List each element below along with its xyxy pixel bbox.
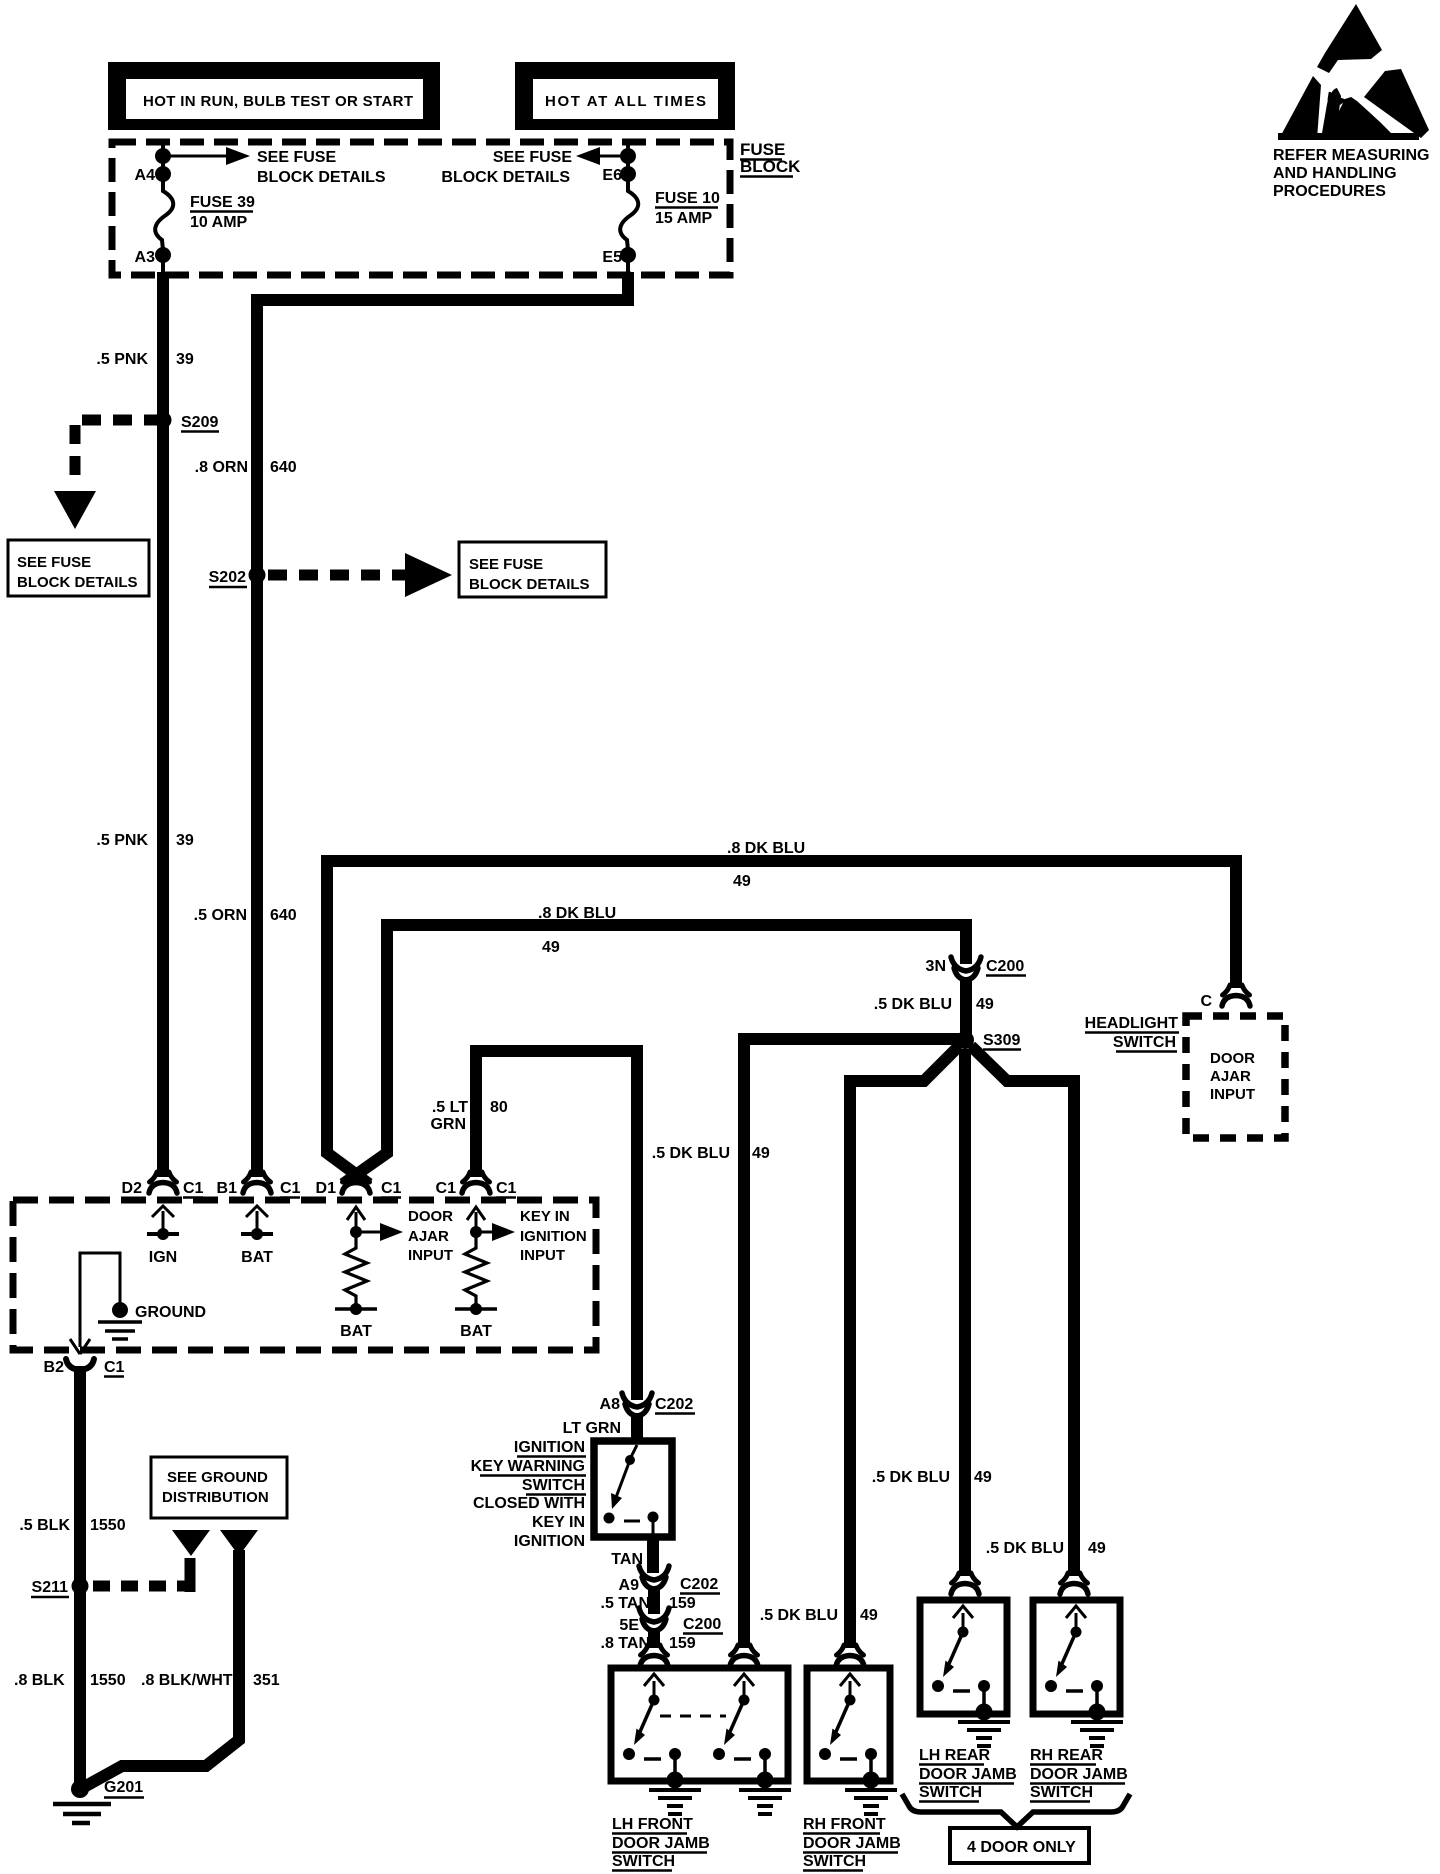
svg-text:A9: A9 <box>619 1577 640 1594</box>
svg-text:BLOCK DETAILS: BLOCK DETAILS <box>441 169 570 186</box>
wire .5 LT GRN 80 from cluster C1 to A8 C202 <box>476 1051 637 1400</box>
cluster internal ground <box>80 1253 206 1347</box>
cluster IGN pin <box>147 1206 179 1266</box>
svg-text:IGN: IGN <box>149 1249 177 1266</box>
svg-text:49: 49 <box>542 939 560 956</box>
svg-text:E5: E5 <box>602 249 622 266</box>
svg-text:.5 BLK: .5 BLK <box>19 1517 70 1534</box>
label .8 BLK 1550 / .8 BLK/WHT 351 <box>14 1672 280 1689</box>
node E6 <box>602 166 636 184</box>
svg-text:A3: A3 <box>135 249 156 266</box>
connector C1 (key-in ignition) <box>436 1172 517 1198</box>
svg-text:S202: S202 <box>209 569 246 586</box>
wire .8 TAN 159 <box>648 1628 660 1648</box>
see ground distribution box <box>151 1457 287 1518</box>
svg-text:KEY WARNING: KEY WARNING <box>471 1458 585 1475</box>
RH front door jamb switch box <box>807 1668 897 1814</box>
connector into RH rear switch <box>1060 1573 1088 1594</box>
svg-text:LH FRONT: LH FRONT <box>612 1816 693 1833</box>
label .8 ORN 640 <box>195 459 297 476</box>
wire S309 branch to RH rear door jamb switch <box>971 1046 1074 1576</box>
wire .5 PNK 39 from A3 down to cluster D2 <box>161 255 165 273</box>
svg-text:IGNITION: IGNITION <box>514 1439 585 1456</box>
node at A4 branch <box>155 148 171 164</box>
svg-text:PROCEDURES: PROCEDURES <box>1273 183 1386 200</box>
dashed branch from S209 to see-fuse arrow <box>54 420 163 529</box>
arrow to SEE FUSE BLOCK DETAILS (right) <box>441 147 628 186</box>
fuse 39 element <box>155 180 255 250</box>
svg-text:.5 ORN: .5 ORN <box>194 907 247 924</box>
connector 5E C200 <box>619 1608 723 1634</box>
label .8 DK BLU 49 (upper run) <box>727 840 805 890</box>
svg-text:BLOCK DETAILS: BLOCK DETAILS <box>257 169 386 186</box>
svg-text:C1: C1 <box>183 1180 204 1197</box>
svg-text:D2: D2 <box>122 1180 143 1197</box>
header box HOT AT ALL TIMES <box>515 62 735 130</box>
label .8 TAN 159 <box>601 1635 696 1652</box>
svg-text:49: 49 <box>860 1607 878 1624</box>
label .5 BLK 1550 <box>19 1517 125 1534</box>
svg-text:.5 PNK: .5 PNK <box>96 832 148 849</box>
node S209 <box>155 412 220 432</box>
svg-text:CLOSED WITH: CLOSED WITH <box>473 1495 585 1512</box>
fuse block dashed box <box>112 142 730 275</box>
svg-text:LH REAR: LH REAR <box>919 1747 991 1764</box>
LH front door jamb switch box <box>611 1668 791 1814</box>
4 door only box <box>950 1828 1089 1863</box>
RH front door jamb switch label <box>803 1816 901 1871</box>
label .5 DK BLU 49 (C200-S309) <box>874 996 994 1013</box>
svg-text:.5 DK BLU: .5 DK BLU <box>652 1145 730 1162</box>
svg-text:.5 LT: .5 LT <box>432 1099 468 1116</box>
svg-text:S309: S309 <box>983 1032 1020 1049</box>
connector B2 C1 with exit arrow <box>44 1339 125 1377</box>
svg-text:REFER MEASURING: REFER MEASURING <box>1273 147 1429 164</box>
svg-text:FUSE 39: FUSE 39 <box>190 194 255 211</box>
fuse block label <box>740 140 801 177</box>
label .5 ORN 640 <box>194 907 297 924</box>
connector into LH front switch (right) <box>730 1645 758 1666</box>
connector into RH front switch <box>836 1645 864 1666</box>
svg-text:BAT: BAT <box>241 1249 273 1266</box>
svg-text:DOOR JAMB: DOOR JAMB <box>919 1766 1017 1783</box>
wire .8 BLK/WHT 351 from ground distribution to G201 <box>84 1530 258 1787</box>
door ajar input dashed box (headlight switch) <box>1186 1016 1285 1138</box>
connector C at headlight switch <box>1200 985 1250 1010</box>
label .5 DK BLU 49 (RH rear feed) <box>986 1540 1106 1557</box>
svg-text:KEY IN: KEY IN <box>520 1208 570 1225</box>
ground G201 <box>53 1779 144 1823</box>
fuse 10 element <box>620 180 720 250</box>
wire .8 DK BLU 49 from D1 to C200 <box>343 925 966 1184</box>
svg-text:.5 DK BLU: .5 DK BLU <box>872 1469 950 1486</box>
wire .8 DK BLU 49 from D1 to headlight switch C <box>327 861 1236 1184</box>
see fuse block details box (left) <box>8 540 149 596</box>
node S309 <box>956 1031 1021 1050</box>
wire S309 left branch to LH front door jamb switch <box>744 1039 965 1648</box>
label .8 DK BLU 49 (lower run) <box>538 905 616 956</box>
wire A4 feed stub <box>161 143 165 176</box>
svg-text:FUSE 10: FUSE 10 <box>655 190 720 207</box>
svg-text:SWITCH: SWITCH <box>803 1853 866 1870</box>
svg-text:.8 DK BLU: .8 DK BLU <box>727 840 805 857</box>
wire S309 down branch to LH rear door jamb switch <box>959 1049 971 1576</box>
svg-text:49: 49 <box>1088 1540 1106 1557</box>
svg-text:C1: C1 <box>381 1180 402 1197</box>
svg-text:.5 TAN: .5 TAN <box>601 1595 650 1612</box>
svg-text:RH FRONT: RH FRONT <box>803 1816 886 1833</box>
node E5 <box>602 247 636 266</box>
svg-text:39: 39 <box>176 832 194 849</box>
cluster BAT pin <box>241 1206 273 1266</box>
svg-text:80: 80 <box>490 1099 508 1116</box>
svg-text:BAT: BAT <box>460 1323 492 1340</box>
wire LT GRN stub into switch <box>631 1413 643 1441</box>
svg-text:1550: 1550 <box>90 1672 126 1689</box>
connector into LH front switch (left) <box>640 1645 668 1666</box>
svg-text:SEE FUSE: SEE FUSE <box>493 149 572 166</box>
svg-text:DISTRIBUTION: DISTRIBUTION <box>162 1489 269 1506</box>
svg-text:.8 BLK: .8 BLK <box>14 1672 65 1689</box>
connector B1 C1 <box>217 1172 301 1198</box>
connector into LH rear switch <box>951 1573 979 1594</box>
svg-text:SWITCH: SWITCH <box>612 1853 675 1870</box>
svg-text:B2: B2 <box>44 1359 65 1376</box>
svg-text:49: 49 <box>976 996 994 1013</box>
svg-text:SWITCH: SWITCH <box>1030 1784 1093 1801</box>
arrow to SEE FUSE BLOCK DETAILS (left) <box>163 147 386 186</box>
wire .5 DK BLU 49 from C200 to S309 <box>960 977 972 1040</box>
svg-text:.8 TAN: .8 TAN <box>601 1635 650 1652</box>
svg-text:SWITCH: SWITCH <box>1113 1034 1176 1051</box>
svg-text:.8 BLK/WHT: .8 BLK/WHT <box>141 1672 233 1689</box>
connector A9 C202 <box>619 1566 720 1594</box>
svg-text:5E: 5E <box>619 1617 639 1634</box>
cluster door ajar input pin with resistor <box>335 1207 453 1340</box>
connector D2 C1 <box>122 1172 204 1198</box>
svg-text:C: C <box>1200 993 1212 1010</box>
svg-text:C200: C200 <box>683 1616 721 1633</box>
svg-text:C202: C202 <box>680 1576 718 1593</box>
svg-text:S209: S209 <box>181 414 218 431</box>
dashed branch S211 to ground distribution <box>93 1530 210 1592</box>
headlight switch label <box>1085 1015 1179 1052</box>
svg-text:INPUT: INPUT <box>1210 1086 1255 1103</box>
svg-text:49: 49 <box>752 1145 770 1162</box>
svg-text:SWITCH: SWITCH <box>919 1784 982 1801</box>
svg-text:IGNITION: IGNITION <box>520 1228 587 1245</box>
see fuse block details box (right) <box>459 542 606 597</box>
wire TAN from switch <box>647 1537 659 1573</box>
svg-text:C1: C1 <box>496 1180 517 1197</box>
header box HOT IN RUN, BULB TEST OR START <box>108 62 440 130</box>
svg-text:BLOCK DETAILS: BLOCK DETAILS <box>469 576 590 593</box>
instrument cluster dashed box <box>13 1200 596 1350</box>
svg-text:G201: G201 <box>104 1779 143 1796</box>
label .5 DK BLU 49 (RH front feed) <box>760 1607 878 1624</box>
svg-text:RH REAR: RH REAR <box>1030 1747 1103 1764</box>
svg-text:C1: C1 <box>436 1180 457 1197</box>
svg-text:SEE FUSE: SEE FUSE <box>17 554 91 571</box>
node S202 <box>209 567 266 588</box>
svg-text:E6: E6 <box>602 167 622 184</box>
node at E6 branch <box>620 148 636 164</box>
ESD warning text <box>1273 147 1429 200</box>
svg-text:A8: A8 <box>600 1396 621 1413</box>
svg-text:4 DOOR ONLY: 4 DOOR ONLY <box>967 1839 1076 1856</box>
svg-text:INPUT: INPUT <box>520 1247 565 1264</box>
svg-text:GRN: GRN <box>430 1116 466 1133</box>
svg-text:640: 640 <box>270 907 297 924</box>
svg-text:GROUND: GROUND <box>135 1304 206 1321</box>
label .5 LT GRN 80 <box>430 1099 507 1133</box>
svg-text:AJAR: AJAR <box>408 1228 449 1245</box>
svg-text:LT GRN: LT GRN <box>563 1420 621 1437</box>
svg-text:49: 49 <box>733 873 751 890</box>
ignition key warning switch label block <box>471 1439 586 1550</box>
svg-text:B1: B1 <box>217 1180 238 1197</box>
svg-text:HEADLIGHT: HEADLIGHT <box>1085 1015 1179 1032</box>
svg-text:S211: S211 <box>32 1579 69 1596</box>
svg-text:640: 640 <box>270 459 297 476</box>
svg-text:49: 49 <box>974 1469 992 1486</box>
svg-text:INPUT: INPUT <box>408 1247 453 1264</box>
svg-text:BAT: BAT <box>340 1323 372 1340</box>
ESD warning symbol <box>1278 4 1429 140</box>
svg-text:.5 DK BLU: .5 DK BLU <box>874 996 952 1013</box>
svg-text:DOOR: DOOR <box>1210 1050 1255 1067</box>
svg-text:SWITCH: SWITCH <box>522 1477 585 1494</box>
wire .5 TAN 159 <box>648 1586 660 1614</box>
RH rear door jamb switch box <box>1033 1600 1123 1746</box>
connector C200 pin 3N <box>926 957 1026 980</box>
svg-text:SEE FUSE: SEE FUSE <box>257 149 336 166</box>
svg-text:AND HANDLING: AND HANDLING <box>1273 165 1397 182</box>
svg-text:1550: 1550 <box>90 1517 126 1534</box>
RH rear door jamb switch label <box>1030 1747 1128 1802</box>
LH rear door jamb switch label <box>919 1747 1017 1802</box>
cluster key-in ignition input pin with resistor <box>455 1207 587 1340</box>
svg-text:SEE GROUND: SEE GROUND <box>167 1469 268 1486</box>
connector D1 C1 (two wires crossing) <box>316 1172 402 1198</box>
svg-text:.8 ORN: .8 ORN <box>195 459 248 476</box>
svg-text:39: 39 <box>176 351 194 368</box>
svg-text:KEY IN: KEY IN <box>532 1514 585 1531</box>
svg-text:15 AMP: 15 AMP <box>655 210 713 227</box>
svg-text:A4: A4 <box>135 167 156 184</box>
LH rear door jamb switch box <box>920 1600 1010 1746</box>
svg-text:BLOCK DETAILS: BLOCK DETAILS <box>17 574 138 591</box>
svg-text:.8 DK BLU: .8 DK BLU <box>538 905 616 922</box>
svg-text:DOOR JAMB: DOOR JAMB <box>612 1835 710 1852</box>
svg-text:.5 DK BLU: .5 DK BLU <box>986 1540 1064 1557</box>
label .5 TAN 159 <box>601 1595 696 1612</box>
wire .5/.8 BLK 1550 from B2 to G201 <box>74 1366 86 1789</box>
brace 4 door only <box>902 1794 1130 1827</box>
svg-text:BLOCK: BLOCK <box>740 157 801 176</box>
connector A8 C202 <box>600 1393 695 1416</box>
svg-text:C200: C200 <box>986 958 1024 975</box>
svg-text:DOOR JAMB: DOOR JAMB <box>803 1835 901 1852</box>
svg-text:DOOR JAMB: DOOR JAMB <box>1030 1766 1128 1783</box>
svg-text:AJAR: AJAR <box>1210 1068 1251 1085</box>
svg-text:351: 351 <box>253 1672 280 1689</box>
node A4 <box>135 166 171 184</box>
node S211 <box>31 1578 89 1598</box>
svg-text:SEE FUSE: SEE FUSE <box>469 556 543 573</box>
svg-text:C1: C1 <box>104 1359 125 1376</box>
svg-text:159: 159 <box>669 1635 696 1652</box>
LH front door jamb switch label <box>612 1816 710 1871</box>
label .5 DK BLU 49 (LH front feed) <box>652 1145 770 1162</box>
svg-text:.5 DK BLU: .5 DK BLU <box>760 1607 838 1624</box>
svg-text:159: 159 <box>669 1595 696 1612</box>
ignition key warning switch box <box>594 1441 672 1538</box>
wire E6 feed stub <box>626 143 630 176</box>
label .5 PNK 39 (lower) <box>96 832 193 849</box>
svg-text:C202: C202 <box>655 1396 693 1413</box>
svg-text:10 AMP: 10 AMP <box>190 214 248 231</box>
wire .8 ORN 640 from E5 down-left to cluster B1 <box>626 255 630 273</box>
node A3 <box>135 247 171 266</box>
svg-text:HOT IN RUN, BULB TEST OR START: HOT IN RUN, BULB TEST OR START <box>143 93 413 110</box>
svg-text:3N: 3N <box>926 958 946 975</box>
label .5 DK BLU 49 (LH rear feed) <box>872 1469 992 1486</box>
svg-text:IGNITION: IGNITION <box>514 1533 585 1550</box>
svg-text:DOOR: DOOR <box>408 1208 453 1225</box>
wire S309 branch to RH front door jamb switch <box>850 1046 959 1648</box>
dashed arrow from S202 to see-fuse box <box>268 553 452 597</box>
label .5 PNK 39 (upper) <box>96 351 193 368</box>
svg-text:D1: D1 <box>316 1180 337 1197</box>
svg-text:.5 PNK: .5 PNK <box>96 351 148 368</box>
svg-text:C1: C1 <box>280 1180 301 1197</box>
